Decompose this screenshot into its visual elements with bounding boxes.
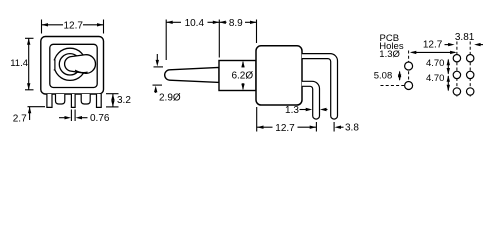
- pcb dim 12.7: [412, 51, 456, 53]
- bushing (side): [219, 61, 256, 91]
- centerline left column: [408, 51, 410, 91]
- dim 2.7 leader: [28, 106, 46, 108]
- grid hole r1c2: [467, 55, 474, 62]
- dim 3.2 arrow: [112, 94, 114, 107]
- svg-text:4.70: 4.70: [426, 58, 445, 69]
- pcb dim 3.81 arrows: [445, 44, 449, 46]
- dim 2.9 ticks: [154, 66, 164, 68]
- side dim extension ticks: [165, 20, 167, 61]
- toggle lever (side): [165, 67, 219, 82]
- centerline left hole2 horizontal: [381, 85, 405, 87]
- side dim 10.4: [166, 21, 181, 23]
- svg-text:8.9: 8.9: [229, 18, 243, 29]
- dim 3.2 ticks: [106, 93, 119, 95]
- dim 4.70 upper: [447, 60, 449, 74]
- front left boss: [56, 94, 65, 104]
- left hole 1: [405, 62, 413, 70]
- dim 5.08: [399, 72, 401, 81]
- svg-text:1.3Ø: 1.3Ø: [379, 49, 400, 60]
- switch body front outer: [41, 37, 104, 95]
- svg-text:12.7: 12.7: [423, 40, 443, 51]
- front dim 11.4 ticks: [25, 37, 34, 39]
- svg-text:6.2Ø: 6.2Ø: [231, 71, 253, 82]
- grid hole r3c1: [453, 88, 460, 95]
- grid hole r3c2: [467, 88, 474, 95]
- grid hole r2c1: [453, 71, 460, 78]
- terminal 2 (lower, left leg): [302, 81, 320, 119]
- side dim 8.9: [219, 21, 226, 23]
- front dim 12.7 line and arrows: [42, 24, 64, 26]
- svg-text:12.7: 12.7: [275, 123, 295, 134]
- dim 3.8 arrow: [340, 126, 344, 128]
- svg-text:3.81: 3.81: [455, 32, 475, 43]
- svg-text:5.08: 5.08: [374, 71, 393, 82]
- dim 0.76 arrows: [59, 117, 66, 119]
- front dim 11.4 label: [12, 58, 29, 68]
- left hole 2: [405, 82, 413, 90]
- svg-text:3.2: 3.2: [117, 95, 131, 106]
- toggle lever (front): [65, 55, 96, 74]
- dim 6.2 arrows: [242, 62, 244, 68]
- svg-text:10.4: 10.4: [185, 18, 205, 29]
- switch body (side): [256, 46, 302, 105]
- svg-text:3.8: 3.8: [345, 122, 359, 133]
- svg-text:1.3: 1.3: [285, 105, 299, 116]
- switch body front inner face: [50, 44, 97, 87]
- bushing keyway flat: [52, 60, 54, 70]
- side dim 12.7 ticks: [256, 107, 258, 132]
- toggle lever tip end-face arc: [75, 70, 88, 72]
- grid hole r1c1: [453, 55, 460, 62]
- dim 0.76 ext lines: [70, 110, 72, 122]
- dim 1.3 arrows: [300, 109, 308, 111]
- front center pin: [71, 94, 75, 107]
- bushing outer circle: [54, 48, 86, 80]
- terminal 1 (upper, right leg): [302, 54, 338, 119]
- dim 2.9 arrows: [156, 54, 158, 61]
- dim 3.8 tick: [333, 122, 335, 132]
- svg-text:0.76: 0.76: [90, 113, 110, 124]
- svg-text:12.7: 12.7: [63, 20, 83, 31]
- dim 4.70 lower: [447, 76, 449, 91]
- grid hole r2c2: [467, 71, 474, 78]
- front right boss: [81, 94, 90, 104]
- side dim 12.7: [257, 126, 273, 128]
- bushing face ring: [59, 54, 80, 75]
- front dim 12.7 extension ticks: [41, 20, 43, 34]
- front dim 11.4 arrow: [28, 38, 30, 90]
- front right pin: [97, 94, 102, 107]
- svg-text:11.4: 11.4: [10, 58, 28, 69]
- svg-text:2.7: 2.7: [13, 113, 27, 124]
- svg-text:4.70: 4.70: [426, 73, 445, 84]
- svg-text:2.9Ø: 2.9Ø: [159, 93, 181, 104]
- front left pin: [47, 94, 52, 107]
- grid centerline col1: [456, 42, 458, 98]
- grid centerline col2: [469, 42, 471, 98]
